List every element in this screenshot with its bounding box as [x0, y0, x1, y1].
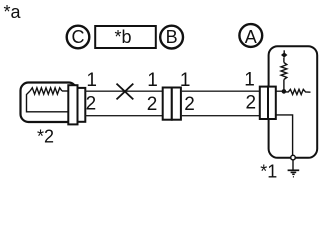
wire (sensor internal loop) [27, 91, 69, 112]
wire pin2 to ground node [276, 115, 293, 155]
svg-text:2: 2 [147, 94, 158, 115]
resistor (horizontal, sense) inside ECU [286, 89, 311, 94]
svg-text:1: 1 [86, 70, 97, 91]
fault point X on pin1 wire [117, 84, 134, 100]
in-line connector (right half) [172, 88, 181, 120]
wire pin1 in-line connector to ECU [181, 90, 260, 92]
wire arrow to resistor [283, 58, 285, 63]
ECU connector (outer half) [260, 87, 268, 119]
connector label B [160, 26, 183, 49]
svg-text:2: 2 [184, 94, 195, 115]
wire node to ground [292, 160, 294, 170]
wire pin1 into ECU [276, 90, 284, 92]
svg-text:*b: *b [114, 27, 131, 47]
power supply arrow inside ECU [281, 50, 287, 57]
ground [288, 170, 300, 177]
svg-text:C: C [72, 27, 85, 47]
connector block at sensor *2 (inner half) [68, 85, 77, 124]
wire resistor to junction [283, 80, 285, 92]
ECU *1 box [269, 46, 318, 158]
connector block at sensor *2 (outer half) [78, 88, 86, 122]
svg-text:*a: *a [4, 2, 22, 22]
connector label C [67, 26, 90, 49]
junction dot [282, 89, 287, 94]
svg-text:B: B [166, 27, 178, 47]
sensor *2 body [21, 83, 77, 123]
svg-text:*1: *1 [260, 161, 277, 181]
wire (resistor lead to pin 1) [62, 90, 69, 92]
wire pin2 in-line connector to ECU [181, 115, 260, 117]
svg-text:A: A [245, 27, 257, 47]
svg-text:1: 1 [180, 70, 191, 91]
svg-text:1: 1 [147, 70, 158, 91]
in-line connector (left half) [163, 88, 172, 120]
resistor in sensor *2 [30, 88, 62, 94]
wire pin1 sensor to in-line connector [85, 90, 162, 92]
svg-text:1: 1 [244, 69, 255, 90]
svg-text:2: 2 [86, 94, 97, 115]
connector label A [239, 24, 262, 47]
ECU connector (inner half) [268, 87, 276, 119]
component *b box [95, 26, 156, 48]
resistor (vertical, pull-up) inside ECU [281, 63, 287, 80]
svg-text:*2: *2 [37, 127, 54, 147]
svg-text:2: 2 [246, 93, 257, 114]
wire pin2 sensor to in-line connector [85, 115, 162, 117]
node circle on ECU case [291, 155, 296, 160]
